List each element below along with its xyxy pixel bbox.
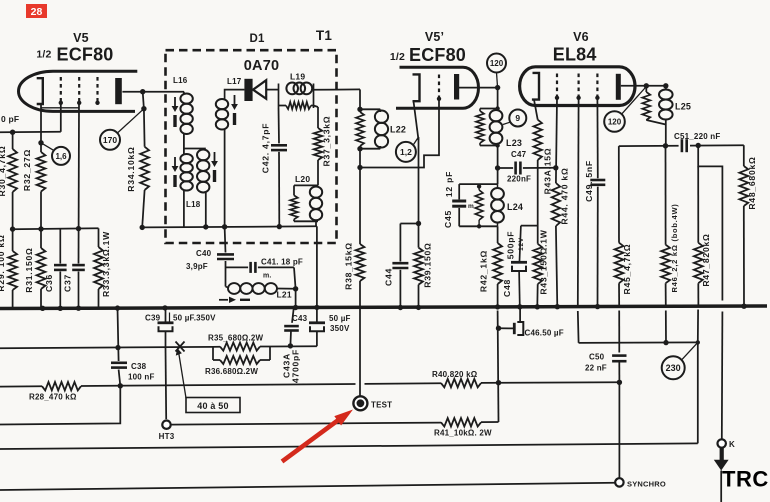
- wire C47 row: [495, 162, 559, 175]
- core arrow L17: [231, 95, 238, 125]
- grid V5': [437, 75, 441, 102]
- label L17: [227, 77, 242, 86]
- svg-text:L25: L25: [675, 102, 691, 112]
- terminal SYNCHRO: [615, 478, 666, 488]
- resistor R29: [8, 229, 17, 309]
- wire SYNCHRO column: [618, 382, 620, 478]
- damping resistor across L19: [279, 84, 337, 110]
- capacitor C40: [217, 227, 234, 283]
- coil L16: [180, 92, 192, 154]
- resistor R31: [37, 229, 46, 309]
- svg-text:100 nF: 100 nF: [128, 373, 155, 382]
- svg-text:R37_3,3kΩ: R37_3,3kΩ: [322, 116, 332, 167]
- wire plate junction drop: [141, 92, 146, 147]
- resistor R44: [552, 98, 560, 306]
- plate V5': [454, 74, 459, 100]
- grid 3 V6: [595, 74, 599, 101]
- svg-text:C42. 4,7pF: C42. 4,7pF: [261, 123, 271, 174]
- cathode V6: [532, 73, 539, 120]
- wire K line: [0, 443, 698, 449]
- resistor R35: [213, 343, 270, 351]
- svg-text:C39: C39: [145, 314, 161, 323]
- coil L20 group: [290, 185, 322, 226]
- svg-text:D1: D1: [249, 33, 265, 45]
- voltage callout 9: [503, 110, 526, 127]
- label R43 value: [539, 229, 549, 294]
- label L21: [277, 290, 292, 300]
- label R47 value: [701, 233, 711, 286]
- label C47 value: [507, 150, 531, 184]
- svg-text:L20: L20: [295, 174, 310, 184]
- coil L22 group: [356, 107, 388, 152]
- resistor R30: [8, 132, 17, 229]
- page badge 28: [26, 4, 47, 18]
- svg-text:R35_680Ω.2W: R35_680Ω.2W: [208, 334, 264, 343]
- label L20: [295, 174, 310, 184]
- svg-text:0A70: 0A70: [244, 58, 279, 74]
- svg-text:L17: L17: [227, 77, 242, 86]
- svg-text:C43: C43: [292, 314, 308, 323]
- svg-text:EL84: EL84: [553, 45, 597, 65]
- wire y342 corner down: [696, 310, 700, 444]
- terminal HT3: [159, 421, 175, 442]
- resistor R36 parallel branch: [213, 347, 270, 365]
- cathode V5: [37, 78, 43, 108]
- svg-text:R45_4,7kΩ: R45_4,7kΩ: [622, 244, 632, 295]
- voltage callout 170: [100, 109, 144, 150]
- svg-text:R38_15kΩ: R38_15kΩ: [344, 242, 354, 290]
- label R31 value: [24, 247, 34, 292]
- label 1/2 ECF80 (V5): [36, 45, 113, 65]
- wire grid2 V6 down: [577, 98, 580, 306]
- wire L18 secondary tap: [184, 148, 206, 150]
- label C43A value: [282, 349, 301, 383]
- svg-text:230: 230: [666, 363, 681, 373]
- tube V6 envelope: [520, 67, 635, 106]
- wire y342 line: [579, 341, 698, 344]
- voltage callout 120 V6: [604, 87, 646, 132]
- svg-text:HT3: HT3: [159, 432, 175, 441]
- svg-text:C51_220 nF: C51_220 nF: [674, 132, 720, 141]
- wire C51 row: [619, 139, 744, 152]
- label EL84: [553, 45, 597, 65]
- svg-text:L16: L16: [173, 76, 188, 85]
- wire decoupling line y347: [0, 346, 317, 348]
- wire grid1 V5 feed: [0, 103, 61, 135]
- box 40 a 50: [186, 398, 240, 413]
- label C48 value: [502, 231, 525, 297]
- resistor R33: [94, 228, 103, 308]
- capacitor C39: [158, 308, 174, 419]
- svg-text:R41_10kΩ. 2W: R41_10kΩ. 2W: [434, 429, 492, 438]
- svg-text:R28_470 kΩ: R28_470 kΩ: [29, 393, 77, 402]
- label C43 value: [292, 314, 351, 333]
- svg-text:1,2: 1,2: [400, 147, 412, 157]
- wire SYNCHRO line: [0, 483, 615, 490]
- label R44 value: [560, 167, 570, 224]
- voltage callout 1,2: [396, 137, 419, 162]
- label C51 value: [674, 132, 720, 141]
- svg-text:R46_2,2 kΩ (bob.4W): R46_2,2 kΩ (bob.4W): [670, 203, 679, 292]
- label R29 value: [0, 234, 6, 291]
- svg-text:C44: C44: [384, 268, 394, 286]
- resistor R39: [414, 248, 423, 308]
- svg-text:V6: V6: [573, 30, 589, 44]
- resistor R40: [441, 379, 481, 387]
- svg-text:L23: L23: [506, 138, 522, 148]
- svg-text:120: 120: [608, 117, 622, 126]
- tube V5 envelope: [18, 71, 137, 111]
- svg-text:ECF80: ECF80: [409, 45, 466, 65]
- coil L19: [286, 83, 312, 95]
- label R37 value: [322, 116, 332, 167]
- resistor R38: [356, 244, 365, 307]
- resistor R47: [694, 166, 703, 306]
- svg-text:R30_4,7kΩ: R30_4,7kΩ: [0, 146, 7, 197]
- svg-text:SYNCHRO: SYNCHRO: [627, 480, 666, 489]
- label input 0 pF: [1, 114, 19, 124]
- svg-text:50 µF: 50 µF: [329, 314, 351, 323]
- svg-text:V5: V5: [73, 31, 89, 45]
- svg-text:m.: m.: [263, 273, 272, 280]
- svg-text:C47: C47: [511, 150, 527, 159]
- label V5': [425, 30, 444, 44]
- svg-text:L21: L21: [277, 290, 292, 300]
- node TEST: [359, 307, 361, 397]
- voltage callout 1,6: [41, 143, 70, 165]
- label L18: [186, 200, 201, 209]
- svg-text:1/2: 1/2: [36, 49, 51, 61]
- wire bias rail y228.8: [10, 226, 99, 232]
- resistor R37: [314, 106, 323, 186]
- svg-text:R43_150Ω.1W: R43_150Ω.1W: [539, 229, 549, 294]
- resistor R41: [441, 418, 499, 426]
- tube V5' envelope: [396, 67, 478, 108]
- fusible X mark: [176, 342, 185, 352]
- label C45 value: [443, 171, 474, 228]
- label R40 value: [432, 370, 478, 379]
- svg-text:500pF: 500pF: [506, 231, 516, 260]
- svg-text:40 à 50: 40 à 50: [197, 401, 228, 411]
- svg-text:R42_1kΩ: R42_1kΩ: [479, 250, 489, 292]
- grid 1 V6: [555, 74, 559, 101]
- capacitor C38: [111, 363, 127, 389]
- label C42 value: [261, 123, 271, 174]
- capacitor C36: [54, 229, 67, 308]
- label R41 value: [434, 429, 492, 438]
- label C49 value: [584, 160, 594, 202]
- bus junction dots: [40, 304, 747, 311]
- svg-text:C49. 5nF: C49. 5nF: [584, 160, 594, 202]
- svg-text:1/2: 1/2: [390, 51, 405, 63]
- coil L17: [216, 90, 245, 227]
- grid 1 V5: [59, 77, 63, 105]
- resistor R45: [615, 146, 624, 307]
- svg-text:170: 170: [103, 135, 117, 145]
- label R34 value: [126, 146, 136, 191]
- label V6: [573, 30, 589, 44]
- grid 3 V5: [95, 77, 99, 105]
- wire cathode V5' down: [416, 137, 421, 248]
- svg-text:R33.3,3kΩ.1W: R33.3,3kΩ.1W: [101, 231, 111, 297]
- plate V5: [115, 78, 122, 104]
- svg-text:L18: L18: [186, 200, 201, 209]
- label T1: [316, 28, 332, 43]
- svg-text:R36.680Ω.2W: R36.680Ω.2W: [205, 367, 258, 376]
- capacitor C49: [590, 180, 605, 307]
- wire T1 out to L22: [337, 89, 361, 110]
- label L25: [675, 102, 691, 112]
- capacitor C41: [226, 262, 295, 273]
- wire plate V6 out: [621, 83, 669, 88]
- svg-text:C48: C48: [502, 279, 512, 297]
- svg-text:C40: C40: [196, 249, 212, 258]
- svg-text:T1: T1: [316, 28, 332, 43]
- capacitor C46: [499, 308, 524, 335]
- resistor R42: [493, 226, 502, 307]
- svg-text:TRC: TRC: [722, 467, 769, 492]
- svg-text:ECF80: ECF80: [56, 45, 113, 65]
- wire plate V5' out: [459, 85, 500, 90]
- svg-text:L22: L22: [390, 125, 406, 135]
- svg-text:C37: C37: [63, 274, 73, 292]
- wire R28 line: [0, 384, 356, 387]
- wire return rail y226.8: [140, 224, 317, 230]
- label R45 value: [622, 244, 632, 295]
- svg-text:1,6: 1,6: [55, 152, 67, 161]
- capacitor C43: [309, 307, 325, 346]
- cathode V5': [413, 74, 420, 140]
- capacitor C42: [271, 108, 287, 227]
- label R42 value: [479, 250, 489, 292]
- core arrow L18 right: [211, 152, 218, 182]
- grid 2 V5: [77, 77, 81, 105]
- label C40 value: [186, 249, 212, 271]
- svg-text:R31.150Ω: R31.150Ω: [24, 247, 34, 292]
- resistor R32: [37, 152, 46, 229]
- svg-text:R32_27Ω: R32_27Ω: [22, 149, 32, 191]
- red arrow to TEST: [282, 410, 353, 462]
- label 1/2 ECF80 (V5'): [390, 45, 466, 65]
- resistor R48: [739, 145, 748, 306]
- plate V6: [616, 74, 621, 100]
- core arrow L16: [172, 97, 179, 127]
- wire g2 column below bus: [577, 311, 580, 343]
- resistor R34: [140, 147, 149, 228]
- wire R47 top + K branch: [698, 146, 722, 301]
- coil L23 group: [476, 88, 502, 168]
- voltage callout 120 V5': [487, 54, 506, 89]
- wire C38 column: [115, 308, 120, 361]
- svg-text:28: 28: [31, 6, 43, 18]
- label R28 value: [29, 393, 77, 402]
- TEST point: [353, 396, 392, 410]
- svg-text:0 pF: 0 pF: [1, 114, 19, 124]
- svg-text:K: K: [729, 440, 735, 449]
- wire grid3 V6 down: [596, 98, 598, 178]
- svg-text:22 nF: 22 nF: [585, 364, 607, 373]
- svg-text:L19: L19: [290, 72, 305, 82]
- wire R42 column below bus: [496, 311, 501, 423]
- label R38 value: [344, 242, 354, 290]
- svg-text:R39.150Ω: R39.150Ω: [423, 242, 433, 287]
- svg-text:120: 120: [490, 59, 504, 68]
- wire diode to L19: [266, 89, 278, 91]
- svg-text:R47_820kΩ: R47_820kΩ: [701, 233, 711, 286]
- wire K column: [721, 312, 724, 440]
- label L24: [507, 202, 523, 212]
- label C50 value: [585, 353, 607, 373]
- svg-text:3,9pF: 3,9pF: [186, 262, 208, 271]
- resistor R43: [533, 168, 542, 307]
- label L22: [390, 125, 406, 135]
- wire L22 to R38: [357, 149, 362, 244]
- label C46 value: [525, 329, 564, 338]
- svg-text:C36: C36: [44, 274, 54, 292]
- transformer box T1: [166, 50, 337, 243]
- wire L21 to bus: [295, 289, 297, 308]
- resistor R43A: [534, 120, 542, 168]
- svg-text:R40.820 kΩ: R40.820 kΩ: [432, 370, 478, 379]
- coil L25 group: [642, 86, 672, 146]
- coil L18 left: [180, 154, 192, 228]
- label R33 value: [101, 231, 111, 297]
- core arrow L18 left: [172, 157, 179, 187]
- wire R46 column below bus: [663, 311, 668, 346]
- coil L18 right: [197, 150, 209, 227]
- wire HT3 feed from C38 column: [0, 386, 120, 425]
- grid 2 V6: [576, 74, 580, 101]
- wire grid V5' jog: [360, 99, 439, 168]
- label C44: [384, 268, 394, 286]
- svg-text:R34.10kΩ: R34.10kΩ: [126, 146, 136, 191]
- svg-text:C46.50 µF: C46.50 µF: [525, 329, 564, 338]
- svg-text:L24: L24: [507, 202, 523, 212]
- coil L21: [226, 267, 299, 294]
- svg-text:R29. 100 kΩ: R29. 100 kΩ: [0, 234, 6, 291]
- label R36 value: [205, 367, 258, 376]
- wire HT3 line right segment to R41: [171, 423, 441, 425]
- coil L24 group: [452, 168, 504, 229]
- svg-text:C41. 18 pF: C41. 18 pF: [261, 258, 303, 267]
- TRC arrow: [714, 448, 729, 502]
- wire main HT bus: [0, 306, 767, 309]
- label R32 value: [22, 149, 32, 191]
- svg-text:V5’: V5’: [425, 30, 444, 44]
- label 0A70: [244, 58, 279, 74]
- label L23: [506, 138, 522, 148]
- wire L20 to bus: [316, 226, 318, 307]
- svg-text:50 µF.350V: 50 µF.350V: [173, 314, 216, 323]
- svg-text:9: 9: [515, 113, 520, 123]
- svg-text:12V: 12V: [518, 237, 525, 251]
- wire R40/C50 line: [365, 382, 620, 384]
- label TRC: [722, 467, 769, 492]
- diode D1 OA70: [244, 79, 266, 101]
- label L19: [290, 72, 305, 82]
- capacitor C50: [612, 311, 626, 385]
- svg-text:R48_680kΩ: R48_680kΩ: [747, 156, 757, 209]
- label C38 value: [128, 362, 155, 382]
- wire grid2 V5 to C37: [78, 103, 81, 264]
- label C39 value: [145, 313, 216, 323]
- svg-text:R44. 470 kΩ: R44. 470 kΩ: [560, 167, 570, 224]
- label R39 value: [423, 242, 433, 287]
- pointer 40a50: [176, 348, 186, 398]
- label R35 value: [208, 334, 264, 343]
- svg-text:C38: C38: [131, 362, 147, 371]
- label R30 value: [0, 146, 7, 197]
- svg-text:m: m: [468, 203, 474, 210]
- svg-text:C45: C45: [443, 210, 453, 228]
- capacitor C48: [511, 226, 538, 307]
- label D1: [249, 33, 265, 45]
- capacitor C43A: [284, 308, 299, 349]
- terminal K: [718, 439, 736, 449]
- label C36: [44, 274, 54, 292]
- svg-text:4700pF: 4700pF: [291, 349, 301, 383]
- wire cathode V5: [38, 108, 79, 152]
- voltage callout 230: [662, 342, 698, 379]
- label V5: [73, 31, 89, 45]
- svg-text:12 pF: 12 pF: [444, 171, 454, 197]
- svg-text:C50: C50: [589, 353, 605, 362]
- label L16: [173, 76, 188, 85]
- resistor R28: [42, 382, 81, 390]
- label R43A value: [543, 148, 553, 195]
- capacitor C44: [392, 224, 418, 308]
- label R46 value: [670, 203, 679, 292]
- label C41 value: [261, 258, 303, 280]
- svg-text:350V: 350V: [330, 324, 350, 333]
- svg-text:R43A.15Ω: R43A.15Ω: [543, 148, 553, 195]
- resistor R46: [661, 146, 670, 307]
- tuning arrow L21: [219, 297, 250, 303]
- svg-text:220nF: 220nF: [507, 175, 531, 184]
- capacitor C37: [72, 265, 85, 308]
- svg-text:TEST: TEST: [371, 400, 392, 409]
- label R48 value: [747, 156, 757, 209]
- wire plate V5 to T1: [122, 89, 184, 94]
- label C37: [63, 274, 73, 292]
